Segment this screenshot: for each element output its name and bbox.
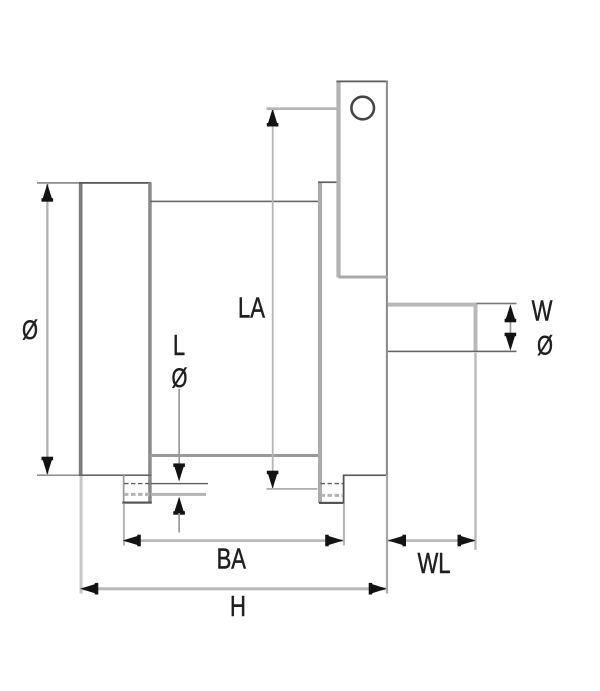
motor body bottom edge	[150, 454, 321, 457]
svg-text:BA: BA	[217, 544, 247, 576]
dimension W/Ø shaft: up arrow	[505, 304, 517, 322]
dimension Ø left: extension line top	[37, 182, 79, 184]
dimension L/Ø foot hole: up arrow	[173, 497, 185, 515]
motor flange top edge	[79, 182, 151, 184]
dimension L/Ø foot hole: down arrow	[173, 463, 185, 481]
dimension L/Ø foot hole: label Ø	[172, 363, 188, 393]
dimension L/Ø foot hole: lower dimension line	[178, 513, 180, 533]
svg-text:L: L	[173, 330, 185, 362]
shaft top edge	[388, 303, 477, 307]
dimension LA: label	[238, 293, 266, 325]
rear endshield left edge	[318, 182, 322, 503]
shaft top extension line to W dimension	[477, 303, 517, 305]
left foot hole upper hidden line dashed inside foot	[124, 483, 208, 484]
terminal bracket top edge	[336, 81, 388, 83]
dimension Ø left: dimension line	[46, 184, 48, 474]
dimension L/Ø foot hole: label L	[173, 330, 185, 362]
svg-text:Ø: Ø	[22, 315, 38, 345]
dimension BA: right extension line below foot	[343, 504, 345, 546]
svg-text:WL: WL	[417, 548, 450, 580]
dimension H: left extension line below flange	[80, 476, 83, 594]
dimension Ø left: bottom arrow	[42, 457, 54, 475]
dimension LA: dimension line	[272, 109, 274, 488]
dimension H: left arrow	[80, 583, 98, 595]
dimension BA: left extension line below foot	[123, 504, 125, 546]
right foot hole upper hidden line	[321, 483, 344, 485]
rear endshield top step edge	[318, 181, 340, 183]
dimension WL: right arrow	[458, 535, 476, 547]
terminal bracket left edge	[336, 81, 340, 278]
rear endshield bottom edge	[343, 474, 388, 476]
left foot hole lower hidden line dashed inside foot	[124, 493, 206, 496]
motor flange right edge / left foot right edge	[148, 183, 152, 504]
dimension L/Ø foot hole: upper dimension line	[178, 389, 180, 466]
svg-text:Ø: Ø	[172, 363, 188, 393]
right foot bottom edge	[319, 502, 345, 504]
dimension BA: dimension line	[123, 539, 343, 542]
left foot bottom edge	[122, 502, 152, 504]
dimension W/Ø shaft: label W	[532, 296, 553, 328]
dimension H: right arrow	[369, 583, 387, 595]
motor body top edge	[150, 201, 319, 203]
dimension BA: left arrow	[123, 535, 141, 547]
dimension BA: label	[217, 544, 247, 576]
motor flange bottom edge	[79, 474, 152, 476]
dimension LA: bottom extension line at foot hole centre	[267, 488, 318, 490]
dimension LA: top arrow	[267, 108, 279, 126]
dimension H: right extension line below endshield	[386, 475, 388, 594]
svg-text:W: W	[532, 296, 553, 328]
terminal bracket right edge continuing as endshield right edge	[386, 81, 388, 476]
dimension BA: right arrow	[325, 535, 343, 547]
motor flange left edge	[79, 182, 83, 476]
dimension H: label	[230, 591, 246, 623]
shaft bottom edge with extension to W dimension	[388, 351, 517, 353]
dimension LA: top extension line to bracket	[267, 107, 339, 110]
dimension W/Ø shaft: down arrow	[505, 333, 517, 351]
dimension W/Ø shaft: dimension line	[510, 318, 512, 338]
svg-text:H: H	[230, 591, 246, 623]
dimension WL: label	[417, 548, 450, 580]
svg-text:LA: LA	[238, 293, 266, 325]
left foot left edge	[123, 475, 125, 504]
dimension W/Ø shaft: label Ø	[537, 331, 553, 361]
svg-text:Ø: Ø	[537, 331, 553, 361]
dimension Ø left: top arrow	[42, 184, 54, 202]
dimension WL: right extension line below shaft	[474, 353, 476, 550]
bracket mounting hole	[351, 97, 374, 120]
dimension H: dimension line	[80, 587, 387, 590]
dimension LA: bottom arrow	[267, 471, 279, 489]
right foot hole lower hidden line	[321, 494, 344, 497]
terminal bracket bottom edge	[339, 276, 388, 279]
dimension Ø left: label	[22, 315, 38, 345]
right foot right edge	[343, 475, 345, 504]
dimension WL: dimension line	[388, 539, 476, 542]
dimension Ø left: extension line bottom	[37, 474, 79, 476]
dimension WL: left arrow	[388, 535, 406, 547]
shaft right edge	[474, 303, 478, 352]
